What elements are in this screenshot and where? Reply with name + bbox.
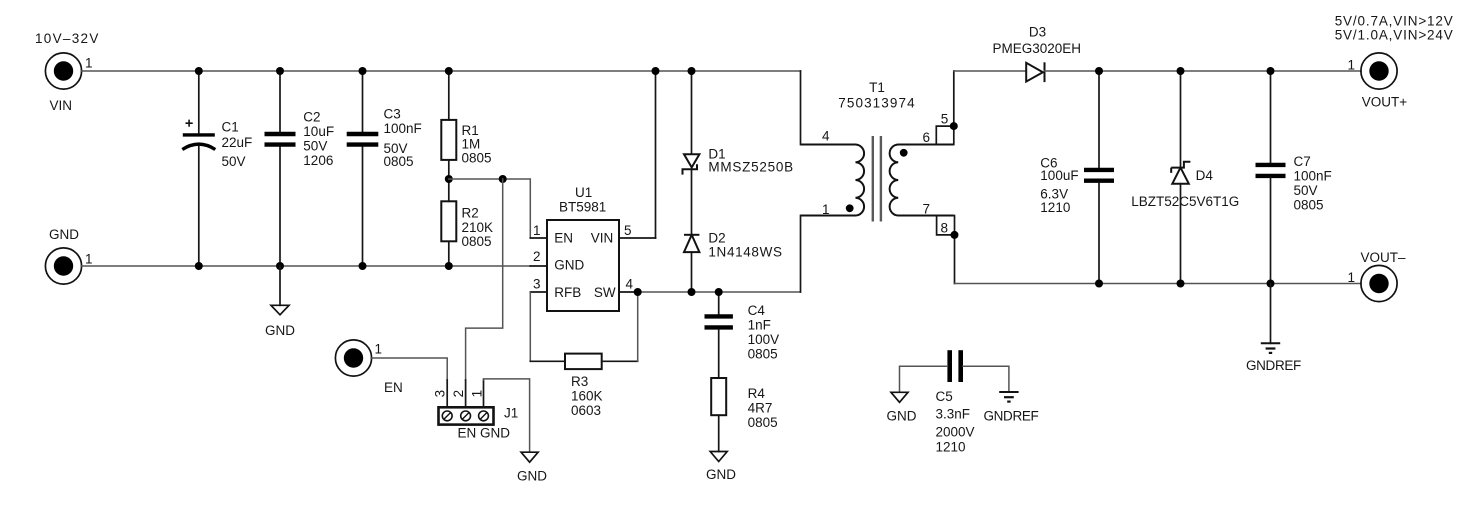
label C4 value [748,303,780,362]
label R4 value [748,386,778,430]
svg-text:1: 1 [85,252,93,267]
resistor R1 [441,71,456,179]
svg-text:1: 1 [1348,270,1356,285]
svg-text:1: 1 [822,202,830,217]
label D3 [1029,25,1046,40]
label R3 value [571,374,603,418]
resistor R2 [441,179,456,266]
label GND below C2 [265,323,295,338]
svg-text:50V: 50V [1294,183,1318,198]
svg-text:GNDREF: GNDREF [1246,358,1301,373]
screw terminal J1 pin2 [461,411,471,421]
svg-text:C2: C2 [303,110,320,125]
label GND at C5 [887,408,917,423]
pin 1 of J1 rotated [470,390,485,398]
junction C6 top [1095,67,1103,75]
junction pin5 [950,122,958,130]
label D4 [1196,168,1214,183]
svg-text:0805: 0805 [748,415,778,430]
svg-text:4R7: 4R7 [748,401,773,416]
zener D4 [1171,71,1190,284]
svg-text:1: 1 [85,56,93,71]
junction D4 top [1177,67,1185,75]
svg-text:3: 3 [533,277,541,292]
ground symbol below C2 [271,266,289,315]
pin 3 RFB of U1 [533,277,541,292]
capacitor C1 [182,71,215,266]
svg-text:1nF: 1nF [748,318,771,333]
svg-text:5V/1.0A,VIN>24V: 5V/1.0A,VIN>24V [1335,28,1454,43]
connector VOUT- terminal [1361,265,1397,301]
svg-text:100nF: 100nF [1294,169,1332,184]
label T1 [869,80,885,95]
svg-text:5: 5 [624,223,632,238]
pin 3 of J1 rotated [433,390,448,398]
transformer T1 primary winding [801,145,865,216]
junction C7 top [1267,67,1275,75]
svg-text:T1: T1 [869,80,885,95]
junction C4 at SW [715,288,723,296]
pin 4 of T1 [822,129,830,144]
label C7 value [1294,154,1332,213]
svg-text:GNDREF: GNDREF [984,408,1039,423]
svg-text:VOUT–: VOUT– [1361,250,1407,265]
pin 6 of T1 [923,130,931,145]
wire bottom GND rail [81,265,547,267]
wire R3 to SW node [602,292,638,361]
svg-text:0805: 0805 [1294,198,1324,213]
label GND (input terminal) [49,227,79,242]
svg-text:50V: 50V [303,139,327,154]
label VOUT- [1361,250,1407,265]
junction D4 bottom [1177,280,1185,288]
svg-text:GND: GND [706,467,736,482]
wire U1 VIN pin5 up to top rail [619,71,656,238]
svg-text:0805: 0805 [462,151,492,166]
label U1 [575,185,592,200]
svg-text:0805: 0805 [384,154,414,169]
svg-text:1210: 1210 [1040,200,1070,215]
wire SW rail [619,216,801,293]
wire EN terminal to J1 pin3 [371,358,447,407]
junction C2 top [276,67,284,75]
label GND below R4 [706,467,736,482]
phase dot primary [846,204,854,212]
svg-text:EN: EN [554,231,573,246]
svg-text:MMSZ5250B: MMSZ5250B [708,159,794,174]
zener D1 [683,154,700,174]
junction EN divider to J1 branch [499,175,507,183]
connector EN terminal [335,340,371,376]
pin 7 of T1 [923,201,931,216]
svg-text:GND: GND [887,408,917,423]
pin 8 stub of T1 [937,216,955,235]
svg-text:160K: 160K [571,388,603,403]
capacitor C3 [347,71,379,266]
svg-text:22uF: 22uF [222,135,253,150]
transformer T1 secondary winding [890,145,954,216]
capacitor C6 [1084,71,1114,284]
svg-text:0805: 0805 [462,234,492,249]
svg-text:3: 3 [433,390,448,398]
svg-text:4: 4 [822,129,830,144]
junction R3 at SW [634,288,642,296]
svg-text:D3: D3 [1029,25,1046,40]
wire secondary top to rail [954,71,1026,145]
svg-text:C4: C4 [748,303,766,318]
diode D2 [684,235,699,252]
capacitor C4 [705,292,733,378]
junction C3 bottom [359,262,367,270]
connector J1 body [439,407,494,424]
svg-text:C3: C3 [384,107,401,122]
wire C7 to GNDREF [1270,284,1272,344]
svg-text:SW: SW [594,285,616,300]
junction C1 top [195,67,203,75]
pin 5 stub of T1 [936,126,954,144]
svg-text:J1: J1 [504,406,518,421]
svg-text:4: 4 [626,277,634,292]
pin name RFB [554,285,581,300]
svg-text:0603: 0603 [571,403,601,418]
label PMEG3020EH [993,41,1082,56]
svg-text:R3: R3 [571,374,588,389]
svg-text:2: 2 [533,249,541,264]
label C1 value [222,119,253,169]
label D2 [708,231,725,246]
label C3 value [384,107,422,169]
pin 8 of T1 [941,220,949,235]
svg-text:C5: C5 [936,389,953,404]
connector VOUT+ terminal [1361,53,1397,89]
label BT5981 [559,199,606,214]
junction C6 bottom [1095,280,1103,288]
pin name VIN [591,231,614,246]
capacitor C5 [900,350,1009,392]
junction clamp at SW [688,288,696,296]
wire top rail VIN [81,71,800,145]
label EN GND pins of J1 [458,426,511,441]
wire secondary bottom to vout rail [954,216,956,284]
svg-text:1N4148WS: 1N4148WS [708,244,782,259]
connector GND terminal [45,248,81,284]
pin 1 of VOUT+ [1348,57,1356,72]
svg-text:2000V: 2000V [936,424,975,439]
svg-text:1: 1 [375,341,383,356]
svg-text:5V/0.7A,VIN>12V: 5V/0.7A,VIN>12V [1335,14,1454,29]
label 10V-32V [35,31,100,46]
svg-text:7: 7 [923,201,931,216]
svg-text:C7: C7 [1294,154,1311,169]
connector VIN terminal [45,53,81,89]
label VIN [50,98,73,113]
capacitor C7 [1256,71,1286,284]
pin 5 VIN of U1 [624,223,632,238]
wire output bottom rail [955,283,1362,285]
resistor R4 [711,378,726,452]
svg-text:50V: 50V [222,154,246,169]
screw terminal J1 pin3 [442,411,452,421]
svg-text:VIN: VIN [50,98,73,113]
label GNDREF below C7 [1246,358,1301,373]
junction C3 top [359,67,367,75]
svg-text:D2: D2 [708,231,725,246]
screw terminal J1 pin1 [479,411,489,421]
diode D3 [1026,62,1044,82]
svg-text:C1: C1 [222,119,239,134]
wire EN divider node to U1 [449,179,547,238]
pin 1 of GND terminal [85,252,93,267]
label C2 value [303,110,334,169]
svg-text:10V–32V: 10V–32V [35,31,100,46]
label MMSZ5250B [708,159,794,174]
label R2 value [462,205,494,249]
pin name SW [594,285,616,300]
wire output top rail [1045,70,1362,72]
ground symbol at J1 pin1 [521,452,538,462]
capacitor C2 [265,71,296,266]
pin 1 of VOUT- [1348,270,1356,285]
svg-text:RFB: RFB [554,285,581,300]
svg-text:1: 1 [1348,57,1356,72]
label VOUT+ [1362,95,1408,110]
svg-text:R2: R2 [462,205,479,220]
svg-text:VIN: VIN [591,231,614,246]
svg-text:100uF: 100uF [1040,168,1078,183]
svg-text:EN: EN [384,380,403,395]
label R1 value [462,123,492,166]
op-amp U1 BT5981 body [547,220,619,311]
junction VIN drop on top rail [652,67,660,75]
svg-text:EN GND: EN GND [458,426,511,441]
transformer core [873,136,881,222]
svg-text:100nF: 100nF [384,121,422,136]
pin 5 of T1 [941,112,949,127]
svg-text:VOUT+: VOUT+ [1362,95,1408,110]
junction clamp top [688,67,696,75]
label GND at J1 [517,468,547,483]
ground symbol at C5 left [891,392,908,402]
label J1 [504,406,518,421]
label C6 value [1040,155,1078,215]
label 1N4148WS [708,244,782,259]
svg-text:1210: 1210 [936,439,966,454]
junction C1 bottom [195,262,203,270]
pin 1 of EN terminal [375,341,383,356]
junction C7 bottom [1267,280,1275,288]
wire D1 D2 clamp column [691,71,693,292]
svg-text:GND: GND [554,258,584,273]
svg-text:10uF: 10uF [303,124,334,139]
svg-text:1: 1 [470,390,485,398]
junction R2 bottom [445,262,453,270]
svg-text:LBZT52C5V6T1G: LBZT52C5V6T1G [1131,194,1239,209]
svg-text:6: 6 [923,130,931,145]
svg-text:PMEG3020EH: PMEG3020EH [993,41,1082,56]
svg-text:GND: GND [517,468,547,483]
phase dot secondary [900,149,908,157]
svg-text:GND: GND [265,323,295,338]
label D1 [708,146,725,161]
svg-text:BT5981: BT5981 [559,199,606,214]
pin 1 of VIN terminal [85,56,93,71]
svg-text:210K: 210K [462,220,494,235]
pin 4 SW of U1 [626,277,634,292]
svg-text:0805: 0805 [748,347,778,362]
pin name EN [554,231,573,246]
svg-text:1206: 1206 [303,153,333,168]
pin name GND [554,258,584,273]
label 750313974 [838,96,915,111]
label output rating line1 [1335,14,1454,29]
junction pin8 [951,231,959,239]
ground symbol below R4 [710,452,727,462]
svg-text:2: 2 [451,390,466,398]
label LBZT52C5V6T1G [1131,194,1239,209]
svg-text:8: 8 [941,220,949,235]
label output rating line2 [1335,28,1454,43]
resistor R3 [565,354,602,370]
svg-text:1: 1 [533,223,541,238]
wire J1 pin1 to ground [484,379,530,452]
junction C2 bottom [276,262,284,270]
svg-text:1M: 1M [462,137,481,152]
svg-text:GND: GND [49,227,79,242]
svg-text:750313974: 750313974 [838,96,915,111]
pin 2 GND of U1 [533,249,541,264]
pin 1 of T1 [822,202,830,217]
junction R1 R2 node [445,175,453,183]
svg-text:3.3nF: 3.3nF [936,407,971,422]
svg-text:U1: U1 [575,185,592,200]
ground symbol GNDREF at C5 right [999,392,1018,402]
svg-text:D4: D4 [1196,168,1214,183]
label EN [384,380,403,395]
pin 2 of J1 rotated [451,390,466,398]
wire EN node down to J1 pin2 [466,179,503,407]
ground symbol GNDREF below C7 [1261,343,1280,353]
svg-text:5: 5 [941,112,949,127]
junction R1 top [445,67,453,75]
pin 1 EN of U1 [533,223,541,238]
svg-text:100V: 100V [748,332,780,347]
svg-text:R4: R4 [748,386,766,401]
label GNDREF at C5 [984,408,1039,423]
wire U1 RFB pin3 [530,292,565,361]
label C5 value [936,389,975,454]
